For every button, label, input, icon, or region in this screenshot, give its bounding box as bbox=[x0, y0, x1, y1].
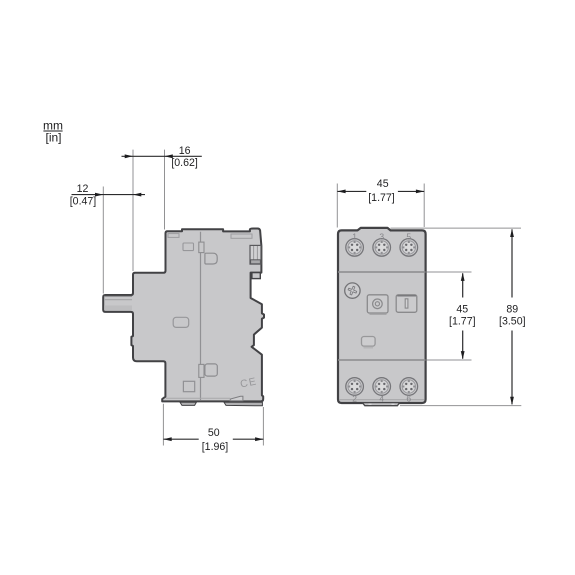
terminal 4 bbox=[373, 378, 391, 396]
arrow 50 right bbox=[255, 437, 263, 441]
dim line 45vert top part bbox=[462, 273, 464, 297]
arrow 12 left (points right at x=103.3) bbox=[95, 193, 103, 197]
svg-text:[1.77]: [1.77] bbox=[449, 316, 476, 328]
terminal 1 bbox=[346, 239, 364, 257]
svg-text:89: 89 bbox=[506, 304, 518, 316]
ext line 50 left x=163.4 bbox=[162, 404, 164, 446]
svg-text:1: 1 bbox=[352, 232, 357, 242]
start button I bbox=[396, 295, 417, 313]
front view body outline bbox=[338, 228, 426, 403]
terminal labels top 1 3 5 bbox=[352, 232, 411, 242]
ext line body-left x=133 bbox=[132, 150, 134, 271]
ext line 50 right x=263.4 bbox=[262, 407, 264, 446]
ext line tab left x=103.3 bbox=[102, 187, 104, 294]
adjustment phillips screw bbox=[345, 283, 360, 298]
bottom light line bbox=[339, 399, 425, 401]
toggle shaft tab shading bbox=[104, 296, 132, 310]
ext line 45vert upper y=272 bbox=[427, 271, 472, 273]
seam latch upper bbox=[199, 242, 204, 253]
unit legend mm over [in] bbox=[43, 119, 63, 145]
arrow 16 right (points left at x=164.5) bbox=[165, 154, 173, 158]
bottom-left square bbox=[183, 381, 194, 391]
dim line 50 right part bbox=[233, 438, 264, 440]
terminal cage side (top right) bbox=[250, 245, 261, 264]
dim line 12 bbox=[72, 194, 146, 196]
arrow 12 right (points left at x=133) bbox=[133, 193, 141, 197]
ext line 45top left x=337.3 bbox=[336, 184, 338, 228]
bottom shade line bbox=[166, 397, 230, 399]
svg-text:45: 45 bbox=[377, 178, 389, 190]
svg-text:5: 5 bbox=[406, 232, 411, 242]
dimension texts bbox=[70, 145, 526, 453]
arrow 16 left (points right at x=133) bbox=[125, 154, 133, 158]
terminal 2 bbox=[346, 378, 364, 396]
arrow 45top right bbox=[416, 190, 424, 194]
vertical seam line bbox=[200, 232, 202, 401]
arrow 45vert down bbox=[461, 351, 465, 359]
svg-text:12: 12 bbox=[77, 183, 89, 195]
dim line 16 bbox=[122, 155, 202, 157]
svg-text:[1.96]: [1.96] bbox=[202, 441, 229, 453]
svg-text:16: 16 bbox=[179, 145, 191, 157]
lower rounded rect right of seam bbox=[205, 364, 217, 376]
arrow 89 up bbox=[510, 229, 514, 237]
terminal labels bottom 2 4 6 bbox=[352, 393, 411, 403]
right edge small tab bbox=[252, 273, 260, 279]
ext line upper-left-edge x=164.5 bbox=[164, 150, 166, 230]
svg-text:3: 3 bbox=[379, 232, 384, 242]
separator line upper bbox=[338, 271, 426, 273]
svg-text:[0.62]: [0.62] bbox=[171, 157, 198, 169]
svg-text:[in]: [in] bbox=[45, 130, 61, 144]
seam latch lower bbox=[199, 364, 204, 377]
mid-left rounded rect bbox=[173, 317, 189, 327]
bottom feet protrusion bbox=[362, 403, 399, 406]
arrow 45vert up bbox=[461, 273, 465, 281]
bottom wedge piece bbox=[230, 396, 243, 401]
svg-text:45: 45 bbox=[456, 304, 468, 316]
terminal 5 bbox=[400, 239, 418, 257]
svg-text:[1.77]: [1.77] bbox=[368, 192, 395, 204]
dim line 45vert bottom part bbox=[462, 331, 464, 359]
label window bbox=[362, 337, 376, 348]
arrow 50 left bbox=[163, 437, 171, 441]
svg-text:[3.50]: [3.50] bbox=[499, 316, 526, 328]
separator line lower bbox=[338, 359, 426, 361]
bottom left foot bbox=[180, 402, 196, 405]
side view body outline bbox=[103, 229, 264, 402]
ext line 89 bottom y=405.6 bbox=[400, 405, 521, 407]
top-right slot bbox=[231, 234, 252, 238]
upper rounded rect right of seam bbox=[205, 253, 217, 264]
dim line 89 top part bbox=[511, 229, 513, 297]
svg-text:[0.47]: [0.47] bbox=[70, 195, 97, 207]
svg-text:50: 50 bbox=[208, 427, 220, 439]
terminal 6 bbox=[400, 378, 418, 396]
dim line 50 left part bbox=[163, 438, 198, 440]
ext line 45top right x=424.2 bbox=[423, 184, 425, 228]
dim line 45top left part bbox=[337, 190, 366, 192]
ext line 45vert lower y=360 bbox=[427, 359, 472, 361]
upper-left small rect bbox=[183, 243, 194, 251]
arrow 89 down bbox=[510, 397, 514, 405]
dim line 89 bottom part bbox=[511, 331, 513, 405]
svg-text:6: 6 bbox=[406, 393, 411, 403]
top-left slot bbox=[168, 234, 179, 238]
ext line 89 top y=228.1 bbox=[391, 227, 522, 229]
arrow 45top left bbox=[337, 190, 345, 194]
stop button O bbox=[367, 295, 388, 315]
svg-text:4: 4 bbox=[379, 393, 384, 403]
svg-text:2: 2 bbox=[352, 393, 357, 403]
dim line 45top right part bbox=[398, 190, 424, 192]
terminal 3 bbox=[373, 239, 391, 257]
bottom right foot bbox=[224, 402, 262, 406]
